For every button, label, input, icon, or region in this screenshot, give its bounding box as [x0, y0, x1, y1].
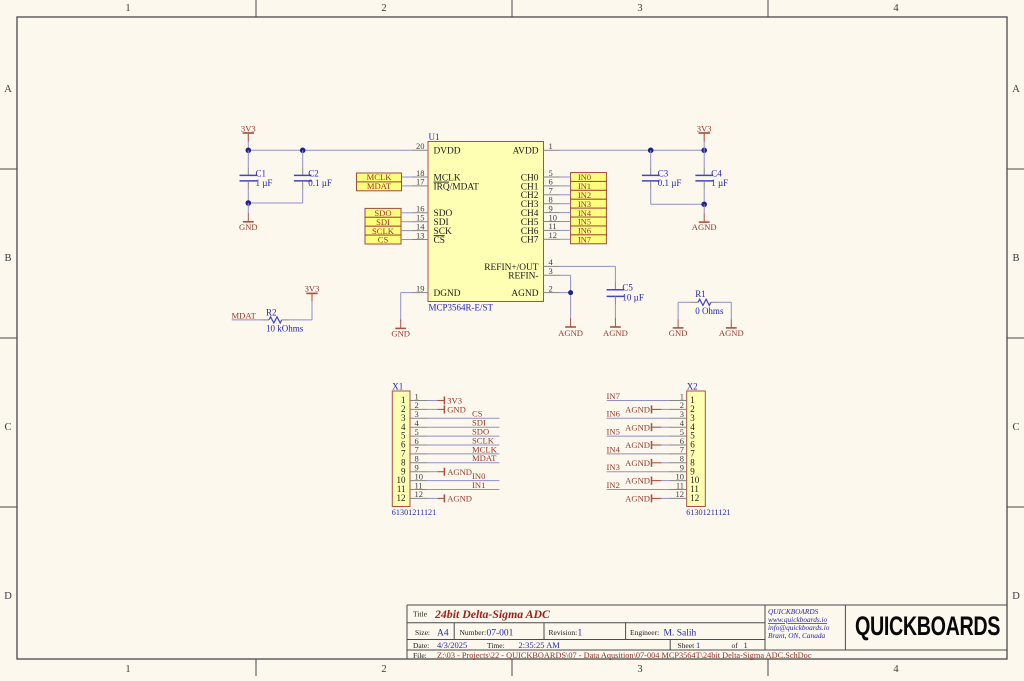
wire X1 pin 7 (MCLK): [428, 453, 500, 455]
X2 pin 3: [669, 409, 695, 423]
power 3V3 (left rail): [241, 123, 256, 150]
U1 pin 3 (REFIN-): [508, 266, 559, 282]
wire X1 pin 11 (IN1): [428, 489, 500, 491]
port MCLK: [357, 172, 402, 182]
wire port SDO to U1: [401, 212, 412, 214]
part number 61301211121 (X1): [392, 508, 436, 517]
wire 3V3 rail to U1 pin 20: [248, 149, 411, 151]
svg-text:MDAT: MDAT: [367, 181, 392, 191]
wire X2 pin 7 (IN4): [607, 453, 669, 455]
svg-text:AVDD: AVDD: [513, 147, 539, 157]
svg-text:AGND: AGND: [719, 328, 744, 338]
U1 pin 5 (CH0): [521, 168, 560, 184]
net label IN0 (X1): [472, 471, 485, 481]
svg-text:Engineer:: Engineer:: [630, 628, 659, 637]
svg-text:3V3: 3V3: [305, 284, 320, 294]
X1 pin 7: [401, 445, 428, 459]
revision field 1: [549, 628, 583, 639]
svg-text:12: 12: [549, 230, 558, 240]
wire X2 pin 5 (IN5): [607, 435, 669, 437]
svg-text:3: 3: [637, 3, 642, 14]
svg-text:3: 3: [549, 266, 553, 276]
wire X1 pin 6 (SCLK): [428, 444, 500, 446]
svg-text:1: 1: [125, 3, 130, 14]
X2 pin 9: [669, 463, 695, 477]
svg-text:12: 12: [415, 489, 424, 499]
company info: [768, 607, 830, 640]
svg-text:IN7: IN7: [607, 391, 621, 401]
svg-text:IN6: IN6: [578, 227, 591, 236]
X1 pin 9: [401, 463, 428, 477]
label C1: [256, 168, 267, 178]
svg-text:C: C: [4, 422, 11, 433]
X2 pin 1: [669, 391, 695, 405]
svg-text:REFIN-: REFIN-: [508, 272, 538, 282]
U1 pin 7 (CH2): [521, 186, 560, 202]
port IN1: [571, 181, 607, 191]
svg-text:D: D: [1012, 591, 1020, 602]
port CS: [365, 235, 401, 245]
net label IN4 (X2): [607, 444, 621, 454]
part number 61301211121 (X2): [686, 508, 730, 517]
wire X2 pin 12 to AGND: [661, 497, 669, 499]
U1 pin 8 (CH3): [521, 195, 560, 211]
port MDAT: [357, 181, 402, 191]
wire X1 pin 4 (SDI): [428, 426, 500, 428]
svg-text:IN1: IN1: [578, 182, 591, 191]
junction at C1 bottom: [246, 200, 252, 206]
svg-text:DGND: DGND: [434, 289, 461, 299]
junction at C1 top: [246, 148, 252, 154]
svg-text:CH7: CH7: [521, 236, 539, 246]
svg-text:Brant, ON, Canada: Brant, ON, Canada: [768, 631, 826, 640]
svg-text:AGND: AGND: [447, 467, 472, 477]
svg-text:R1: R1: [695, 289, 706, 299]
designator X2: [687, 381, 698, 391]
net label IN5 (X2): [607, 427, 620, 437]
wire X1 pin 12 to AGND: [428, 497, 438, 499]
svg-text:Revision:: Revision:: [549, 628, 578, 637]
X2 pin 2: [669, 400, 695, 414]
X2 pin 11: [669, 480, 699, 494]
wire U1 CH2 to port IN2: [560, 194, 571, 196]
capacitor C1: [240, 150, 258, 203]
svg-text:MDAT: MDAT: [472, 453, 497, 463]
svg-text:AGND: AGND: [625, 405, 650, 415]
net label IN1 (X1): [472, 480, 485, 490]
capacitor C2: [294, 150, 312, 203]
svg-text:QUICKBOARDS: QUICKBOARDS: [855, 611, 1000, 640]
net label MCLK (X1): [472, 444, 498, 454]
svg-text:IN3: IN3: [578, 200, 591, 209]
svg-text:IRQ/MDAT: IRQ/MDAT: [434, 182, 480, 192]
X2 pin 10: [669, 471, 700, 485]
wire X1 pin 10 (IN0): [428, 480, 500, 482]
svg-text:Number:: Number:: [460, 628, 487, 637]
ground AGND (under C5): [603, 318, 628, 338]
svg-text:IN2: IN2: [607, 480, 620, 490]
wire U1 AVDD to 3V3 rail: [560, 149, 705, 151]
file field: [413, 651, 812, 660]
net label CS (X1): [472, 409, 483, 419]
wire X2 pin 10 to AGND: [661, 480, 669, 482]
connector X2 body: [687, 391, 706, 507]
svg-text:2: 2: [381, 3, 386, 14]
title block frame: [407, 605, 1007, 660]
wire X2 pin 3 (IN6): [607, 417, 669, 419]
power port AGND (X2 pin 10): [625, 476, 661, 486]
svg-text:X2: X2: [687, 381, 698, 391]
svg-text:19: 19: [416, 283, 425, 293]
svg-text:IN5: IN5: [578, 218, 591, 227]
ground GND (under C1): [239, 203, 258, 232]
svg-text:3: 3: [637, 664, 642, 675]
designator X1: [392, 381, 403, 391]
wire X1 pin 8 (MDAT): [428, 462, 500, 464]
designator R2: [266, 308, 277, 318]
power 3V3 (R2 pullup): [305, 284, 320, 301]
svg-text:IN0: IN0: [578, 173, 591, 182]
svg-text:GND: GND: [239, 222, 258, 232]
svg-text:Z:\03 - Projects\22 - QUICKBOA: Z:\03 - Projects\22 - QUICKBOARDS\07 - D…: [437, 651, 812, 660]
svg-text:2: 2: [381, 664, 386, 675]
svg-text:File:: File:: [413, 651, 427, 660]
svg-text:1 µF: 1 µF: [256, 178, 273, 188]
svg-text:C4: C4: [711, 168, 722, 178]
U1 pin 6 (CH1): [521, 177, 560, 193]
power port AGND (X2 pin 6): [625, 440, 661, 450]
svg-text:AGND: AGND: [625, 476, 650, 486]
svg-text:4: 4: [893, 3, 899, 14]
svg-text:IN6: IN6: [607, 409, 621, 419]
net label IN2 (X2): [607, 480, 620, 490]
port IN2: [571, 190, 607, 200]
resistor R1: [678, 299, 731, 305]
capacitor C5: [607, 290, 625, 320]
net label MDAT: [232, 310, 257, 320]
U1 pin 15 (SDI): [412, 213, 449, 229]
svg-text:Date:: Date:: [413, 641, 429, 650]
wire X2 pin 8 to AGND: [661, 462, 669, 464]
wire X1 pin 2 to GND: [428, 408, 438, 410]
wire X1 pin 5 (SDO): [428, 435, 500, 437]
svg-text:AGND: AGND: [603, 328, 628, 338]
port IN0: [571, 173, 607, 183]
svg-text:12: 12: [397, 493, 406, 503]
svg-text:MCP3564R-E/ST: MCP3564R-E/ST: [429, 302, 494, 312]
X2 pin 6: [669, 436, 695, 450]
wire X2 pin 2 to AGND: [661, 408, 669, 410]
net label MDAT (X1): [472, 453, 497, 463]
net label IN7 (X2): [607, 391, 621, 401]
svg-text:GND: GND: [391, 328, 410, 338]
svg-text:C3: C3: [658, 168, 669, 178]
U1 pin 18 (MCLK): [412, 168, 461, 184]
svg-text:C2: C2: [308, 168, 319, 178]
svg-text:IN7: IN7: [578, 236, 591, 245]
svg-text:R2: R2: [266, 308, 277, 318]
port SCLK: [365, 226, 401, 236]
svg-text:M. Salih: M. Salih: [664, 628, 697, 638]
port IN5: [571, 217, 607, 227]
X1 pin 10: [397, 471, 428, 485]
wire X2 pin 6 to AGND: [661, 444, 669, 446]
connector X1 body: [392, 391, 410, 507]
value 10 kOhms (R2): [266, 324, 304, 334]
svg-text:1: 1: [549, 141, 553, 151]
svg-text:1: 1: [696, 640, 700, 650]
svg-text:Time:: Time:: [487, 641, 505, 650]
svg-text:C: C: [1012, 422, 1019, 433]
capacitor C3: [642, 150, 660, 204]
svg-text:1: 1: [578, 628, 583, 638]
power 3V3 (right rail): [697, 123, 712, 150]
svg-text:D: D: [4, 591, 12, 602]
X2 pin 7: [669, 445, 695, 459]
X2 pin 5: [669, 427, 695, 441]
svg-text:B: B: [1012, 253, 1019, 264]
svg-text:1 µF: 1 µF: [711, 178, 728, 188]
wire R1 left to GND: [677, 302, 679, 320]
svg-text:A: A: [1012, 84, 1020, 95]
junction at C3 top: [648, 148, 654, 154]
svg-text:AGND: AGND: [625, 494, 650, 504]
svg-text:IN2: IN2: [578, 191, 591, 200]
port SDI: [365, 217, 401, 227]
wire X1 pin 9 to AGND: [428, 471, 438, 473]
label C2: [308, 168, 319, 178]
size field A4: [415, 628, 449, 639]
svg-text:CS: CS: [434, 236, 445, 246]
svg-text:0.1 µF: 0.1 µF: [308, 178, 332, 188]
svg-text:IN5: IN5: [607, 427, 620, 437]
svg-text:3V3: 3V3: [697, 123, 712, 133]
op-amp U1 body (MCP3564R ADC): [428, 142, 544, 302]
wire U1 DGND to GND: [401, 293, 412, 321]
svg-text:4/3/2025: 4/3/2025: [437, 640, 467, 650]
svg-text:0 Ohms: 0 Ohms: [695, 306, 724, 316]
net label SDI (X1): [472, 418, 486, 428]
wire R1 right to AGND: [730, 302, 732, 320]
svg-text:C1: C1: [256, 168, 267, 178]
power port AGND (X2 pin 8): [625, 458, 661, 468]
svg-text:0.1 µF: 0.1 µF: [658, 178, 682, 188]
wire port SCLK to U1: [401, 230, 412, 232]
svg-text:X1: X1: [392, 381, 403, 391]
wire port MCLK to U1: [402, 176, 412, 178]
wire U1 CH6 to port IN6: [560, 229, 571, 231]
power port AGND (X2 pin 2): [625, 405, 661, 415]
label C4: [711, 168, 722, 178]
date field: [413, 640, 560, 650]
net label IN6 (X2): [607, 409, 621, 419]
designator R1: [695, 289, 706, 299]
wire port SDI to U1: [401, 221, 412, 223]
U1 pin 19 (DGND): [412, 283, 461, 299]
U1 pin 10 (CH5): [521, 212, 560, 228]
sheet field: [678, 640, 748, 650]
U1 pin 20 (DVDD): [412, 141, 461, 157]
X1 pin 2: [401, 400, 428, 414]
U1 pin 1 (AVDD): [513, 141, 560, 157]
svg-text:CS: CS: [378, 235, 389, 245]
number field 07-001: [460, 628, 514, 639]
value 10 µF (C5): [622, 292, 643, 302]
svg-text:13: 13: [416, 230, 425, 240]
junction at U1 AGND pin: [568, 290, 573, 295]
ground GND (U1 DGND): [391, 320, 410, 339]
wire X2 pin 9 (IN3): [607, 471, 669, 473]
svg-text:MDAT: MDAT: [232, 310, 257, 320]
svg-text:12: 12: [690, 493, 699, 503]
X1 pin 4: [401, 418, 428, 432]
svg-text:B: B: [4, 253, 11, 264]
junction at C4 bottom: [701, 202, 707, 208]
power port AGND (X1 pin 9): [438, 467, 473, 477]
part number MCP3564R-E/ST: [429, 302, 494, 312]
U1 pin 2 (AGND): [511, 283, 559, 299]
X2 pin 8: [669, 454, 695, 468]
X2 pin 12: [669, 489, 699, 503]
svg-text:20: 20: [416, 141, 425, 151]
power port GND (X1 pin 2): [438, 405, 466, 415]
svg-text:GND: GND: [669, 328, 688, 338]
value 0.1 µF (C3): [658, 178, 682, 188]
ground AGND (under C4): [692, 204, 717, 232]
port IN3: [571, 199, 607, 209]
svg-text:AGND: AGND: [692, 222, 717, 232]
svg-text:17: 17: [416, 177, 425, 187]
net label SDO (X1): [472, 427, 489, 437]
U1 pin 9 (CH4): [521, 203, 560, 219]
wire X1 pin 3 (CS): [428, 417, 500, 419]
wire U1 CH0 to port IN0: [560, 176, 571, 178]
designator U1: [429, 132, 440, 142]
U1 pin 11 (CH6): [521, 221, 560, 237]
svg-text:24bit Delta-Sigma ADC: 24bit Delta-Sigma ADC: [434, 607, 550, 621]
logo QUICKBOARDS: [855, 611, 1000, 640]
value 1 µF (C4): [711, 178, 728, 188]
svg-text:AGND: AGND: [558, 328, 583, 338]
svg-text:Sheet: Sheet: [678, 641, 696, 650]
X2 pin 4: [669, 418, 695, 432]
value 1 µF (C1): [256, 178, 273, 188]
svg-text:IN1: IN1: [472, 480, 485, 490]
svg-text:GND: GND: [447, 405, 466, 415]
wire U1 CH1 to port IN1: [560, 185, 571, 187]
junction at C2 top: [300, 148, 306, 154]
capacitor C4: [695, 150, 713, 204]
svg-text:AGND: AGND: [625, 422, 650, 432]
U1 pin 17 (IRQ/MDAT): [412, 177, 479, 193]
wire U1 AGND pin to AGND symbol: [560, 293, 571, 320]
ground GND (R1): [669, 320, 688, 339]
svg-text:2: 2: [549, 283, 553, 293]
svg-text:61301211121: 61301211121: [392, 508, 436, 517]
svg-text:U1: U1: [429, 132, 440, 142]
svg-text:1: 1: [125, 664, 130, 675]
svg-text:1: 1: [744, 640, 748, 650]
wire X2 pin 11 (IN2): [607, 489, 669, 491]
value 0 Ohms (R1): [695, 306, 724, 316]
svg-text:IN4: IN4: [607, 444, 621, 454]
svg-text:AGND: AGND: [625, 440, 650, 450]
wire U1 REFIN- down to AGND net: [560, 275, 571, 292]
ground AGND (R1): [719, 320, 744, 339]
X1 pin 3: [401, 409, 428, 423]
U1 pin 4 (REFIN+/OUT): [484, 257, 559, 273]
svg-text:3V3: 3V3: [241, 123, 256, 133]
label C3: [658, 168, 669, 178]
X1 pin 8: [401, 454, 428, 468]
X1 pin 6: [401, 436, 428, 450]
wire port MDAT to U1: [402, 185, 412, 187]
svg-text:10 kOhms: 10 kOhms: [266, 324, 304, 334]
svg-text:AGND: AGND: [625, 458, 650, 468]
svg-text:07-001: 07-001: [487, 628, 514, 638]
power port AGND (X2 pin 12): [625, 494, 661, 504]
net label IN3 (X2): [607, 462, 620, 472]
svg-text:C5: C5: [622, 283, 633, 293]
U1 pin 14 (SCK): [412, 221, 452, 237]
power port AGND (X1 pin 12): [438, 494, 473, 504]
net label SCLK (X1): [472, 435, 495, 445]
wire U1 REFIN+ to C5: [560, 266, 616, 289]
wire U1 CH7 to port IN7: [560, 238, 571, 240]
svg-text:61301211121: 61301211121: [686, 508, 730, 517]
port IN4: [571, 208, 607, 218]
label C5: [622, 283, 633, 293]
engineer field M. Salih: [630, 628, 696, 639]
svg-text:DVDD: DVDD: [434, 147, 461, 157]
svg-text:4: 4: [893, 664, 899, 675]
power port AGND (X2 pin 4): [625, 422, 661, 432]
wire U1 CH5 to port IN5: [560, 221, 571, 223]
svg-text:AGND: AGND: [447, 494, 472, 504]
svg-text:10 µF: 10 µF: [622, 292, 643, 302]
X1 pin 11: [397, 480, 428, 494]
svg-text:of: of: [732, 641, 739, 650]
svg-text:2:35:25 AM: 2:35:25 AM: [519, 640, 561, 650]
resistor R2: [269, 317, 282, 323]
port IN7: [571, 235, 607, 245]
svg-text:IN3: IN3: [607, 462, 620, 472]
svg-text:Size:: Size:: [415, 628, 430, 637]
port IN6: [571, 226, 607, 236]
port SDO: [365, 208, 401, 218]
X1 pin 1: [401, 391, 428, 405]
svg-text:A: A: [4, 84, 12, 95]
wire X1 pin 1 to 3V3: [428, 400, 438, 402]
svg-text:AGND: AGND: [511, 289, 538, 299]
U1 pin 16 (SDO): [412, 204, 453, 220]
junction at C4 top: [701, 148, 707, 154]
wire U1 CH3 to port IN3: [560, 203, 571, 205]
svg-text:IN4: IN4: [578, 209, 592, 218]
svg-text:12: 12: [676, 489, 685, 499]
U1 pin 13 (CS): [412, 230, 445, 246]
wire U1 CH4 to port IN4: [560, 212, 571, 214]
wire C2 bottom to C1 bottom: [248, 202, 302, 204]
X1 pin 12: [397, 489, 428, 503]
wire C3 bottom to C4 bottom: [651, 203, 705, 205]
svg-text:A4: A4: [437, 628, 449, 638]
wire R2 to 3V3: [282, 301, 312, 320]
U1 pin 12 (CH7): [521, 230, 560, 246]
power port 3V3 (X1 pin 1): [438, 396, 463, 406]
X1 pin 5: [401, 427, 428, 441]
svg-text:Title: Title: [413, 609, 428, 618]
